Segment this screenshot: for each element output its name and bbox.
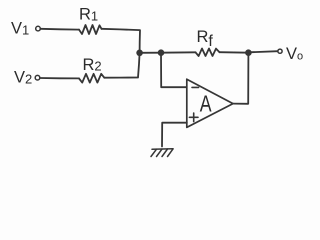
node V2 input terminal — [35, 75, 40, 80]
resistor R1 — [79, 25, 102, 34]
resistor Rf — [196, 49, 220, 57]
ground symbol — [151, 149, 173, 157]
resistor R2 — [79, 74, 104, 83]
svg-text:R1: R1 — [79, 6, 98, 24]
wire V1 terminal to R1 — [41, 28, 79, 31]
svg-text:A: A — [200, 91, 212, 117]
wire op-amp plus input to ground — [162, 123, 187, 147]
wire V2 terminal to R2 — [40, 77, 79, 79]
wire Rf to output node — [220, 51, 249, 54]
wire R1 to node A (summing junction), with corner — [102, 29, 141, 53]
op-amp U1 (gain block A) triangle — [187, 79, 233, 127]
wire R2 to node A (summing junction), with corner — [104, 53, 139, 78]
node V1 input terminal — [36, 26, 41, 31]
wire inverting node to Rf — [161, 51, 196, 53]
wire output node to Vo terminal — [248, 51, 278, 52]
op-amp non-inverting pin mark (plus) — [189, 113, 198, 122]
wire op-amp output to feedback/output node — [233, 53, 248, 104]
node Vo output terminal — [278, 49, 282, 53]
svg-text:Rf: Rf — [197, 28, 214, 50]
wire inverting node down to op-amp minus input — [161, 53, 187, 87]
junction dot: output feedback node — [245, 49, 252, 56]
junction dot: inverting-input node — [158, 49, 165, 56]
svg-text:Vo: Vo — [286, 45, 303, 63]
wire summing node A to inverting-input node — [140, 52, 161, 54]
svg-text:R2: R2 — [83, 56, 102, 74]
junction dot: summing node A (R1,R2 join) — [136, 50, 143, 57]
op-amp inverting pin mark (minus) — [192, 86, 199, 88]
svg-text:V1: V1 — [11, 20, 29, 38]
svg-text:V2: V2 — [14, 69, 32, 87]
